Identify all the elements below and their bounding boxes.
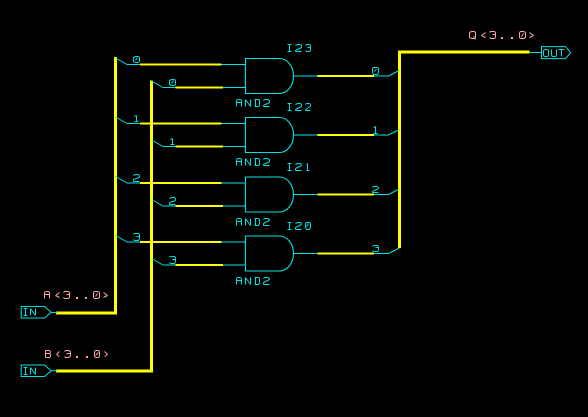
wire A2: yellow bus-net segment xyxy=(140,182,222,184)
wire Q0: diagonal joining bus Q xyxy=(389,71,400,77)
wire B1: yellow bus-net segment xyxy=(176,146,224,148)
label 3 on wire Q3 xyxy=(373,246,379,252)
wire Q0: yellow bus-net segment xyxy=(318,75,375,77)
wire A1: horizontal run to gate I22 pin 1 xyxy=(127,123,246,125)
wire Q1: output of I22 xyxy=(294,134,389,136)
wire A1: yellow bus-net segment xyxy=(140,123,222,125)
wire Q2: diagonal joining bus Q xyxy=(389,189,400,195)
input port symbol IN (bus A) xyxy=(21,307,51,319)
wire Q1: diagonal joining bus Q xyxy=(389,130,400,136)
AND gate I23 body xyxy=(246,59,294,94)
net label B<3..0> xyxy=(46,351,108,358)
label 2 on wire Q2 xyxy=(373,187,379,193)
wire B2: tap from bus B xyxy=(152,200,164,207)
wire Q1: yellow bus-net segment xyxy=(318,134,375,136)
wire A3: horizontal run to gate I20 pin 1 xyxy=(127,241,246,243)
wire B0: tap from bus B xyxy=(152,81,164,88)
net label Q<3..0> xyxy=(470,32,534,40)
stub wire into OUT port xyxy=(530,52,542,54)
label 0 on wire A0 xyxy=(134,57,140,63)
wire Q0: output of I23 xyxy=(294,75,389,77)
bus A<3..0> horizontal segment from IN port xyxy=(56,312,117,315)
bus A<3..0> vertical segment xyxy=(114,57,117,315)
gate type label AND2 xyxy=(237,278,270,285)
wire B0: horizontal run to gate I23 pin 2 xyxy=(163,87,246,89)
label 1 on wire Q1 xyxy=(374,127,378,134)
gate reference designator I20 xyxy=(288,223,311,230)
bus Q<3..0> horizontal segment to OUT port xyxy=(398,51,530,54)
wire A1: tap from bus A xyxy=(116,117,128,124)
wire B3: horizontal run to gate I20 pin 2 xyxy=(163,264,246,266)
label 1 on wire A1 xyxy=(135,116,139,122)
wire A2: tap from bus A xyxy=(116,177,128,184)
label 2 on wire A2 xyxy=(134,175,140,182)
bus B<3..0> vertical segment xyxy=(150,81,153,373)
AND gate I22 body xyxy=(246,118,294,153)
input port symbol IN (bus B) xyxy=(21,365,51,377)
gate reference designator I21 xyxy=(288,164,310,171)
gate reference designator I23 xyxy=(288,45,311,52)
wire A2: horizontal run to gate I21 pin 1 xyxy=(127,182,246,184)
label 3 on wire B3 xyxy=(170,257,176,264)
label 3 on wire A3 xyxy=(134,234,140,241)
wire A0: tap from bus A xyxy=(116,58,128,65)
wire Q3: diagonal joining bus Q xyxy=(389,248,400,254)
wire B3: tap from bus B xyxy=(152,259,164,266)
wire B1: horizontal run to gate I22 pin 2 xyxy=(163,146,246,148)
wire B2: horizontal run to gate I21 pin 2 xyxy=(163,205,246,207)
AND gate I20 body xyxy=(246,236,294,271)
wire A0: yellow bus-net segment xyxy=(140,64,222,66)
label 0 on wire Q0 xyxy=(373,68,379,75)
label 0 on wire B0 xyxy=(170,80,176,86)
gate type label AND2 xyxy=(237,219,270,226)
stub wire from IN port A xyxy=(51,312,57,314)
wire B0: yellow bus-net segment xyxy=(176,87,224,89)
gate type label AND2 xyxy=(237,159,270,166)
wire Q2: yellow bus-net segment xyxy=(318,194,375,196)
bus Q<3..0> vertical segment xyxy=(398,51,401,249)
net label A<3..0> xyxy=(45,292,108,299)
output port symbol OUT (bus Q) xyxy=(542,47,571,59)
bus B<3..0> horizontal segment from IN port xyxy=(56,370,153,373)
gate reference designator I22 xyxy=(288,104,311,111)
wire B3: yellow bus-net segment xyxy=(176,264,224,266)
gate type label AND2 xyxy=(237,100,270,107)
wire Q3: output of I20 xyxy=(294,253,389,255)
wire Q3: yellow bus-net segment xyxy=(318,253,375,255)
wire A0: horizontal run to gate I23 pin 1 xyxy=(127,64,246,66)
stub wire from IN port B xyxy=(51,370,57,372)
wire B1: tap from bus B xyxy=(152,140,164,147)
wire A3: tap from bus A xyxy=(116,236,128,243)
AND gate I21 body xyxy=(246,177,294,212)
wire B2: yellow bus-net segment xyxy=(176,205,224,207)
wire Q2: output of I21 xyxy=(294,194,389,196)
label 2 on wire B2 xyxy=(170,198,176,205)
wire A3: yellow bus-net segment xyxy=(140,241,222,243)
label 1 on wire B1 xyxy=(171,139,175,145)
